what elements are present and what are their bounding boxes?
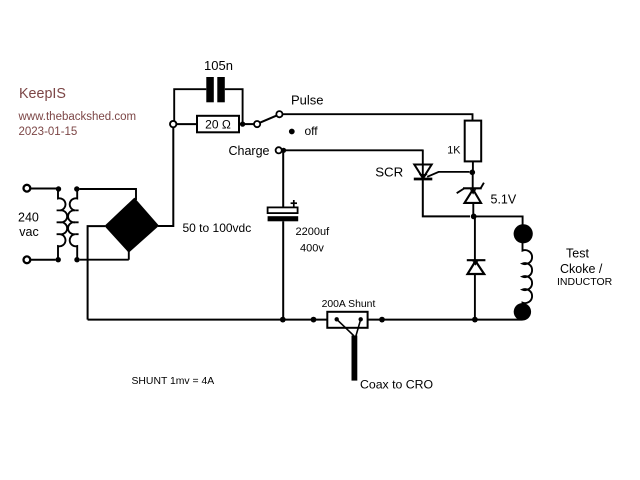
svg-text:Test: Test [566, 247, 589, 261]
svg-text:INDUCTOR: INDUCTOR [557, 276, 613, 288]
label Charge [229, 144, 270, 158]
wire SCR cathode down [423, 180, 470, 216]
junction dot charge [281, 148, 286, 153]
svg-text:Charge: Charge [229, 144, 270, 158]
label Pulse [291, 93, 324, 108]
terminal AC top [24, 185, 31, 192]
junction dot rail diode [472, 317, 478, 323]
node circle at resistor input [170, 121, 176, 127]
junction dot gate [470, 170, 476, 176]
label SCR [375, 165, 403, 180]
label 105n [204, 58, 233, 73]
bridge rectifier [104, 198, 159, 253]
wire AC top [31, 188, 57, 190]
bottom rail right [368, 319, 523, 321]
svg-text:Coax to CRO: Coax to CRO [360, 378, 433, 392]
wire 1K to gate node [472, 161, 474, 172]
wire node up to cap 105n [174, 89, 206, 121]
transformer T1 [56, 186, 80, 262]
shunt box [327, 312, 367, 336]
svg-text:2023-01-15: 2023-01-15 [19, 126, 78, 138]
terminal AC bottom [24, 256, 31, 263]
bottom rail left [88, 319, 328, 321]
label 1K [447, 144, 461, 156]
wire charge down to cap [282, 150, 284, 207]
label 400v [300, 243, 324, 255]
junction dot rail shunt left [311, 317, 317, 323]
switch pivot [254, 121, 260, 127]
capacitor 2200uf plus sign [291, 200, 297, 207]
wire node to resistor [176, 123, 197, 125]
zener 5.1V [457, 175, 484, 215]
svg-text:KeepIS: KeepIS [19, 86, 66, 102]
resistor 20 ohm [197, 116, 239, 133]
label SHUNT 1mv = 4A [132, 376, 215, 387]
capacitor 2200uf [268, 207, 299, 221]
svg-text:SHUNT 1mv = 4A: SHUNT 1mv = 4A [132, 376, 215, 387]
junction dot rail shunt right [379, 317, 385, 323]
label 50 to 100vdc [183, 221, 252, 235]
wire cap down to rail [282, 221, 284, 319]
label 5.1V [491, 193, 517, 207]
label Coax to CRO [360, 378, 433, 392]
label off [305, 124, 319, 138]
coax stub [352, 336, 358, 381]
title KeepIS [19, 86, 66, 102]
switch lever [260, 116, 277, 123]
label 2200uf [296, 226, 331, 238]
svg-text:vac: vac [19, 225, 38, 239]
svg-text:50 to 100vdc: 50 to 100vdc [183, 221, 252, 235]
off bullet [289, 129, 295, 135]
svg-text:5.1V: 5.1V [491, 193, 517, 207]
SCR Q1 [414, 150, 470, 181]
svg-text:240: 240 [18, 211, 39, 225]
terminal charge [276, 147, 282, 153]
label 200A Shunt [322, 299, 376, 310]
title url [18, 111, 137, 123]
svg-text:www.thebackshed.com: www.thebackshed.com [18, 111, 137, 123]
wire charge to SCR [284, 149, 423, 151]
wire node to inductor top [474, 216, 523, 225]
wire secondary top to bridge [80, 189, 137, 200]
svg-text:off: off [305, 124, 319, 138]
wire resistor to switch [239, 123, 254, 125]
junction dot cap/resistor [240, 121, 245, 126]
label Test Ckoke / INDUCTOR [557, 247, 613, 289]
svg-text:400v: 400v [300, 243, 324, 255]
title date [19, 126, 78, 138]
svg-text:20 Ω: 20 Ω [205, 117, 231, 131]
svg-text:Ckoke /: Ckoke / [560, 262, 603, 276]
wire pulse to 1K [283, 114, 473, 120]
capacitor 105n [206, 77, 225, 102]
svg-text:SCR: SCR [375, 165, 403, 180]
label 240 vac [18, 211, 39, 240]
wire cap 105n right down [225, 89, 243, 121]
diode freewheel [467, 216, 486, 319]
svg-text:105n: 105n [204, 58, 233, 73]
svg-text:Pulse: Pulse [291, 93, 324, 108]
junction dot rail cap [280, 317, 286, 323]
resistor 1K [465, 121, 482, 162]
junction dot zener bottom [471, 214, 477, 220]
wire bridge left down [88, 226, 105, 320]
switch contact pulse [276, 111, 282, 117]
wire bridge right to node [158, 127, 173, 226]
inductor under test [514, 224, 533, 320]
wire secondary bottom to bridge [80, 252, 129, 260]
svg-text:1K: 1K [447, 144, 461, 156]
svg-text:2200uf: 2200uf [296, 226, 331, 238]
wire AC bottom [31, 259, 56, 261]
svg-text:200A Shunt: 200A Shunt [322, 299, 376, 310]
